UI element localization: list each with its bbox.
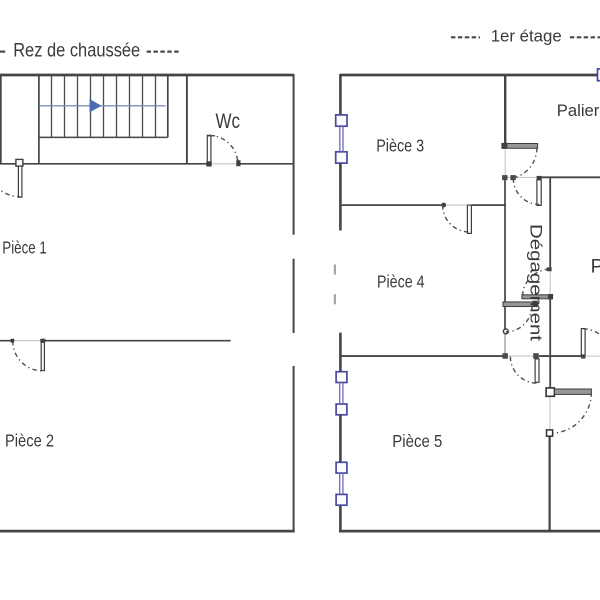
svg-text:Pièce 4: Pièce 4 — [377, 271, 425, 291]
svg-text:Pièce 5: Pièce 5 — [392, 431, 442, 451]
svg-text:Wc: Wc — [216, 109, 241, 133]
svg-text:1er étage: 1er étage — [491, 26, 562, 45]
svg-text:Dégagement: Dégagement — [527, 224, 546, 341]
svg-text:Palier: Palier — [557, 101, 600, 120]
svg-text:Pièce 3: Pièce 3 — [376, 136, 424, 156]
svg-text:Pièce 1: Pièce 1 — [2, 237, 47, 257]
svg-text:P: P — [591, 257, 600, 278]
svg-text:Rez de chaussée: Rez de chaussée — [13, 41, 140, 62]
svg-text:Pièce 2: Pièce 2 — [5, 431, 54, 451]
